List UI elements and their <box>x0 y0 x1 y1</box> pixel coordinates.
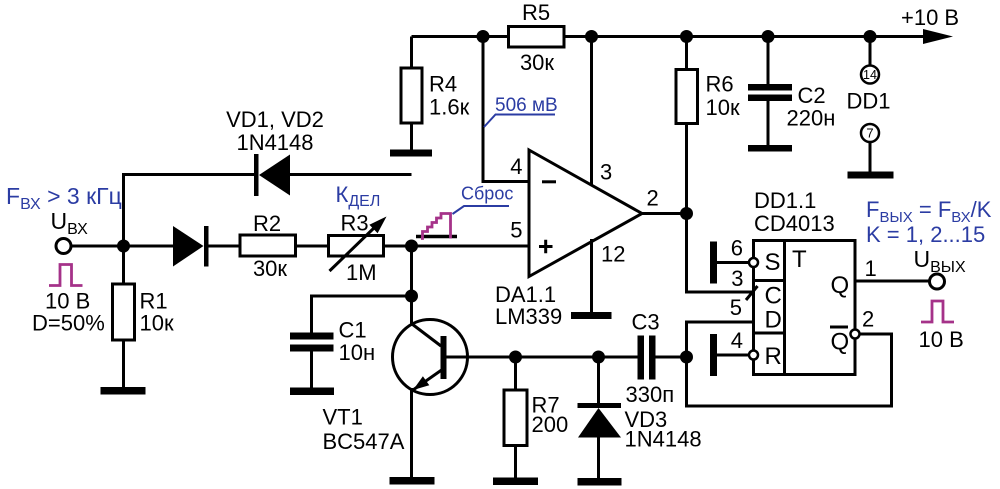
svg-text:D=50%: D=50% <box>32 311 105 336</box>
svg-text:+10 В: +10 В <box>901 5 959 30</box>
svg-text:R2: R2 <box>253 211 281 236</box>
node: base/C1 junction <box>405 290 418 303</box>
node: input/R1 junction <box>117 240 130 253</box>
svg-text:Q: Q <box>831 329 850 356</box>
ground under C1 <box>290 388 334 396</box>
svg-text:Сброс: Сброс <box>461 184 513 204</box>
label DD1 <box>847 89 891 114</box>
wire: S input <box>717 261 749 264</box>
wire: R2 to R3 <box>296 245 329 248</box>
svg-text:R5: R5 <box>522 0 550 25</box>
label K = 1, 2...15 <box>866 222 985 247</box>
svg-text:VD1, VD2: VD1, VD2 <box>226 107 324 132</box>
svg-text:D: D <box>765 307 782 334</box>
svg-text:200: 200 <box>532 412 569 437</box>
transistor VT1 <box>323 296 468 477</box>
svg-text:12: 12 <box>601 242 625 267</box>
svg-text:1N4148: 1N4148 <box>625 427 702 452</box>
label VD1, VD2 1N4148 <box>226 107 324 155</box>
pin label 2 (Q-bar) <box>862 307 874 332</box>
ground under DD1 pin 7 <box>848 172 894 179</box>
svg-text:R: R <box>765 343 782 370</box>
svg-text:2: 2 <box>647 186 659 211</box>
wire: collector line to C3 <box>447 356 638 359</box>
ground under R1 <box>101 387 146 395</box>
pin label 1 <box>865 256 877 281</box>
svg-text:LM339: LM339 <box>495 304 562 329</box>
C input edge mark <box>746 286 758 300</box>
inversion circle Q-bar <box>851 330 860 339</box>
svg-text:330п: 330п <box>626 382 675 407</box>
node: rail/C2 junction <box>762 30 775 43</box>
diode VD2 <box>254 154 412 196</box>
node: rail/pin3 junction <box>585 30 598 43</box>
svg-text:C1: C1 <box>339 318 367 343</box>
ground bar at S input <box>710 242 717 284</box>
diode VD1 <box>173 226 240 267</box>
node: R3/base junction <box>405 240 418 253</box>
label Fвых = Fвх/K <box>866 197 992 226</box>
op-amp comparator DA1.1 <box>495 150 642 329</box>
output terminal Uвых <box>930 274 945 289</box>
wire: pin 4 riser <box>483 37 529 182</box>
pin label 3 <box>600 160 612 185</box>
node: rail/DD1 pin14 junction <box>864 30 877 43</box>
svg-text:DD1.1: DD1.1 <box>754 188 816 213</box>
svg-text:S: S <box>765 249 781 276</box>
svg-text:506 мВ: 506 мВ <box>495 95 558 116</box>
svg-text:3: 3 <box>731 266 743 291</box>
ground bar at R input <box>710 334 717 376</box>
output pulse symbol <box>921 301 954 322</box>
node: collector/VD3 junction <box>592 351 605 364</box>
wire: input to VD1 <box>71 245 173 248</box>
node: output/R6 junction <box>680 207 693 220</box>
svg-text:R6: R6 <box>706 72 734 97</box>
svg-text:R3: R3 <box>341 211 369 236</box>
node: rail/R6 junction <box>680 30 693 43</box>
svg-text:CD4013: CD4013 <box>754 211 835 236</box>
pin label 5 (D input) <box>730 295 742 320</box>
capacitor C3 <box>626 310 687 408</box>
pin label 2 <box>647 186 659 211</box>
svg-text:4: 4 <box>510 154 522 179</box>
DD1 pin 7 <box>861 124 879 172</box>
ground under C2 <box>748 145 792 152</box>
ground under R7 <box>493 478 538 486</box>
svg-text:5: 5 <box>730 295 742 320</box>
svg-text:10н: 10н <box>339 340 376 365</box>
ground under VT1 emitter <box>390 477 435 485</box>
label Кдел <box>336 182 381 210</box>
svg-text:C2: C2 <box>798 83 826 108</box>
svg-text:30к: 30к <box>253 256 287 281</box>
svg-text:T: T <box>792 246 807 273</box>
svg-text:BC547A: BC547A <box>323 429 405 454</box>
resistor R2 <box>240 211 296 281</box>
svg-text:2: 2 <box>862 307 874 332</box>
capacitor C1 <box>290 318 375 388</box>
resistor R1 <box>113 246 174 387</box>
ground under VD3 <box>578 478 622 486</box>
svg-text:Q: Q <box>831 272 850 299</box>
label Fвх > 3 кГц <box>6 183 122 213</box>
resistor R5 <box>509 0 565 75</box>
wire: junction down to base node <box>410 246 413 296</box>
svg-text:3: 3 <box>600 160 612 185</box>
svg-text:1.6к: 1.6к <box>429 95 470 120</box>
svg-text:1N4148: 1N4148 <box>236 130 313 155</box>
wire: upper branch to VD2 <box>124 175 255 247</box>
svg-text:C3: C3 <box>632 310 660 335</box>
svg-text:DD1: DD1 <box>847 89 891 114</box>
diode VD3 <box>578 357 702 478</box>
svg-text:10 В: 10 В <box>919 327 964 352</box>
label 10 В D=50% <box>32 289 105 336</box>
pin label 6 <box>731 236 743 261</box>
wire: to C1 <box>312 296 412 333</box>
inversion circle S <box>749 258 758 267</box>
wire: +10V top rail <box>412 35 931 38</box>
label Uвых <box>914 246 966 276</box>
resistor R4 <box>401 37 470 150</box>
pin label 4 (R input) <box>731 328 743 353</box>
label DD1.1 CD4013 <box>754 188 835 236</box>
label 10 В (output) <box>919 327 964 352</box>
label 506 мВ callout <box>484 95 558 127</box>
svg-text:1: 1 <box>865 256 877 281</box>
svg-text:1М: 1М <box>346 260 377 285</box>
svg-text:14: 14 <box>863 68 877 82</box>
ground under R4 <box>390 150 432 157</box>
power arrow +10 В <box>901 5 959 44</box>
DD1 pin 14 <box>861 37 879 84</box>
node: rail/R4/pin4 junction <box>477 30 490 43</box>
resistor R6 <box>676 37 740 214</box>
svg-text:VT1: VT1 <box>323 405 363 430</box>
pin label 5 <box>510 218 522 243</box>
svg-text:220н: 220н <box>787 106 836 131</box>
svg-text:7: 7 <box>866 126 873 141</box>
svg-text:30к: 30к <box>520 50 554 75</box>
wire: Q output <box>855 280 929 283</box>
resistor R7 <box>504 357 568 478</box>
wire: comparator output <box>642 212 687 215</box>
pin label 4 <box>510 154 522 179</box>
svg-text:10к: 10к <box>140 311 174 336</box>
wire: pin 12 riser <box>590 239 593 312</box>
svg-text:4: 4 <box>731 328 743 353</box>
svg-text:C: C <box>765 283 782 310</box>
label Сброс callout with sawtooth <box>416 184 513 239</box>
pin label 3 (C input) <box>731 266 743 291</box>
svg-text:6: 6 <box>731 236 743 261</box>
capacitor C2 <box>748 37 835 146</box>
wire: pin 3 riser <box>590 37 593 189</box>
inversion circle R <box>749 351 758 360</box>
svg-text:K = 1, 2...15: K = 1, 2...15 <box>866 222 985 247</box>
svg-text:R4: R4 <box>429 72 457 97</box>
pin label 12 <box>601 242 625 267</box>
svg-text:10к: 10к <box>706 95 740 120</box>
wire: R3 to comparator pin 5 <box>384 245 529 248</box>
ground under pin 12 <box>571 312 612 319</box>
svg-text:5: 5 <box>510 218 522 243</box>
wire: output down to C input <box>687 214 754 293</box>
node: collector/R7 junction <box>509 351 522 364</box>
input pulse symbol <box>49 265 83 286</box>
wire: D input riser and loop <box>687 322 892 406</box>
label Uвх <box>51 208 89 238</box>
node: C3/D-loop junction <box>680 351 693 364</box>
wire: R input <box>717 354 749 357</box>
input terminal Uвх <box>56 239 71 254</box>
variable resistor R3 <box>329 211 387 286</box>
flip-flop DD1.1 box <box>754 241 856 375</box>
